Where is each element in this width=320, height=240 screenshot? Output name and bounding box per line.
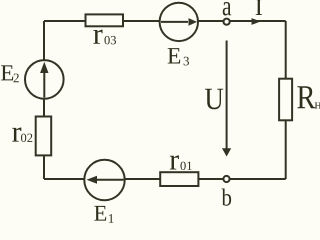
- node b: [222, 176, 232, 206]
- wire top: [44, 20, 286, 22]
- voltage source E2: [1, 60, 64, 99]
- voltage source E1: [84, 160, 124, 223]
- wire bottom: [44, 178, 286, 180]
- voltage arrow U: [205, 41, 231, 157]
- wire right: [285, 21, 287, 179]
- load resistor Rн: [279, 79, 320, 121]
- node a: [223, 2, 231, 25]
- current arrow I: [252, 0, 262, 25]
- wire left: [43, 21, 45, 179]
- resistor r01: [160, 155, 198, 186]
- resistor r03: [86, 14, 124, 44]
- voltage source E3: [160, 3, 198, 66]
- resistor r02: [12, 117, 51, 156]
